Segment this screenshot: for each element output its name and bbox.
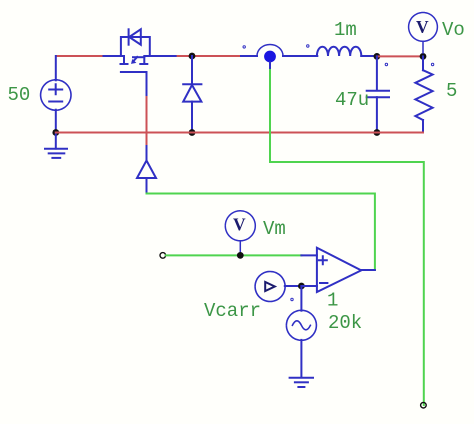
wire MOSFET gate vertical red (146, 97, 148, 146)
current probe node big dot (264, 51, 276, 63)
junction dot diode top (189, 53, 196, 60)
polarity mark Vcarr (291, 298, 293, 300)
wire green feedback net A (270, 70, 424, 405)
svg-text:5: 5 (446, 80, 457, 102)
voltage source VDC 50 (41, 80, 71, 110)
svg-text:20k: 20k (328, 312, 362, 334)
wire top bus diode red segment (178, 55, 241, 57)
ground symbol carrier (290, 378, 313, 387)
svg-text:V: V (233, 215, 246, 235)
wire hop to inductor (283, 55, 317, 57)
wire green gate drive net B (147, 194, 375, 271)
current sensor probe (255, 272, 301, 302)
wire MOSFET gate vertical blue top (146, 72, 148, 97)
svg-text:1: 1 (327, 290, 338, 312)
resistor R1 (415, 56, 432, 132)
wire MOSFET gate vertical blue bottom (146, 146, 148, 160)
junction dot cap bottom (374, 129, 381, 136)
junction dot cap top (374, 53, 381, 60)
wire source vertical (55, 56, 57, 80)
wire red cap to resistor top (377, 55, 423, 57)
svg-text:47u: 47u (335, 89, 369, 111)
voltmeter Vo (409, 13, 438, 54)
polarity mark hop left (243, 46, 245, 48)
wire blue op-amp plus input (301, 254, 317, 256)
MOSFET Q1 with body diode (121, 29, 150, 72)
svg-text:V: V (416, 17, 429, 37)
terminal node left (160, 253, 166, 259)
current probe hop arc (257, 45, 283, 56)
svg-text:Vo: Vo (442, 19, 465, 41)
polarity mark inductor left (307, 45, 309, 47)
wire blue op-amp minus input (301, 285, 317, 287)
wire source to bottom bus (55, 110, 57, 133)
wire green op-amp plus input (166, 254, 302, 256)
ground symbol left (45, 133, 67, 158)
wire op-amp output blue (361, 269, 375, 271)
wire top bus MOSFET to diode blue (144, 55, 177, 57)
polarity mark resistor (431, 63, 433, 65)
junction dot minus input (298, 283, 305, 290)
voltmeter Vm (225, 211, 255, 256)
svg-text:Vcarr: Vcarr (204, 300, 261, 322)
gating block on-off controller (137, 161, 156, 194)
svg-text:1m: 1m (334, 19, 357, 41)
diode D1 freewheeling (183, 56, 201, 133)
carrier source Vcarr sine (286, 286, 316, 378)
terminal node bottom right (421, 402, 427, 408)
wire probe stub blue (269, 62, 271, 70)
inductor L1 (317, 47, 377, 56)
polarity mark cap (385, 63, 387, 65)
junction dot source/ground (52, 129, 59, 136)
svg-text:Vm: Vm (263, 218, 286, 240)
wire top bus blue into MOSFET (104, 55, 125, 57)
junction dot Vm tap (237, 252, 244, 259)
op-amp U1 comparator (317, 248, 361, 292)
capacitor C1 (367, 56, 389, 132)
svg-text:50: 50 (8, 84, 31, 106)
junction dot diode bottom (189, 129, 196, 136)
wire top bus left red segment (56, 55, 104, 57)
wire top bus to hop blue (241, 55, 257, 57)
wire bottom bus red (56, 132, 423, 134)
junction dot resistor top (420, 53, 427, 60)
